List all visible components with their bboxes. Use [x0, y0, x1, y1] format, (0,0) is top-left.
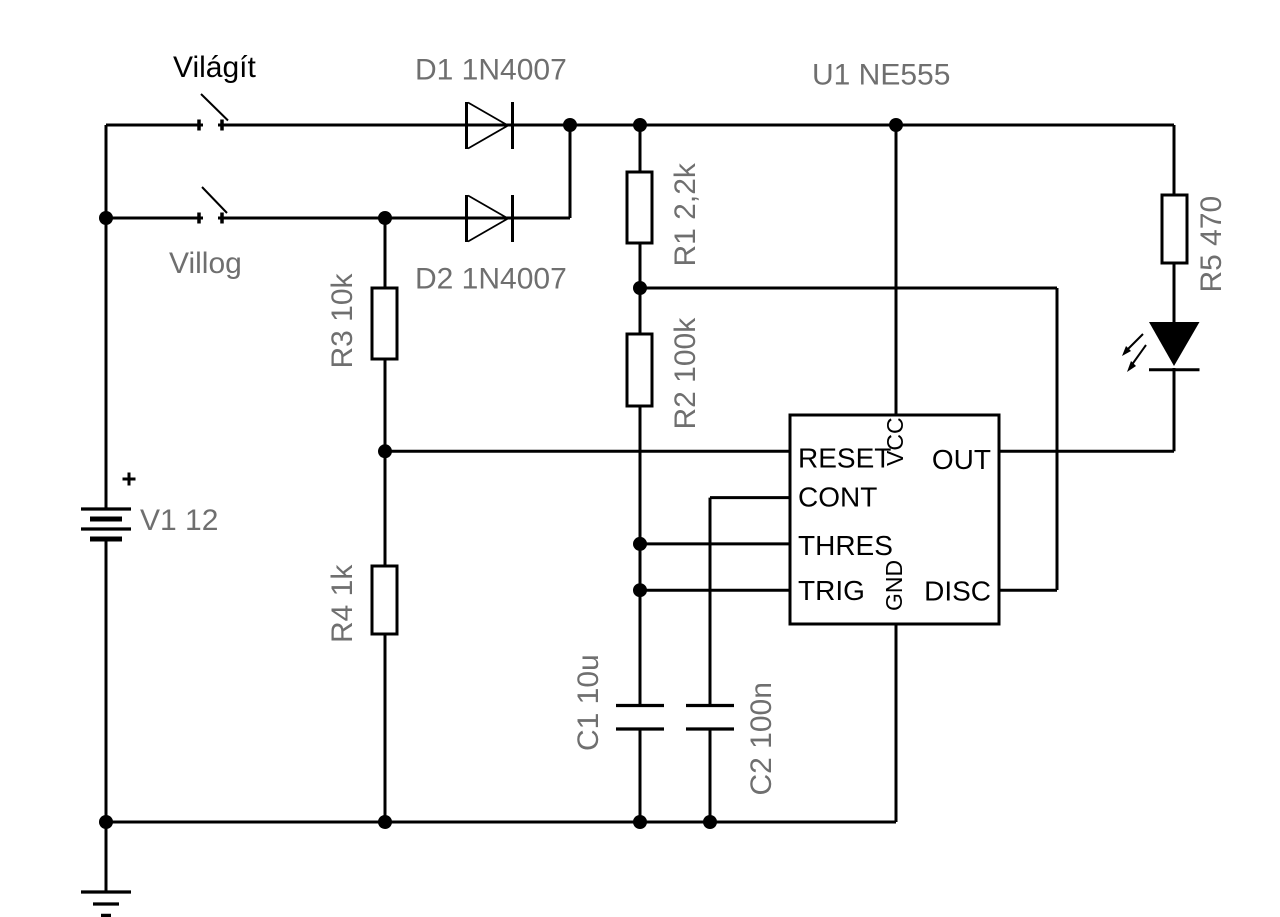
svg-text:R1 2,2k: R1 2,2k [669, 162, 702, 266]
op-amp U1 NE555 box [790, 415, 999, 624]
wire VCC riser [895, 125, 898, 416]
node C2 bottom [703, 815, 717, 829]
diode D1 [467, 102, 513, 149]
svg-text:GND: GND [881, 560, 907, 611]
resistor R2 [627, 334, 652, 406]
svg-text:D2 1N4007: D2 1N4007 [415, 263, 567, 296]
node R1 top [633, 118, 647, 132]
node R1R2 [633, 281, 647, 295]
wire DISC [999, 589, 1057, 592]
switch S2 Villog [199, 187, 227, 224]
node villog-left [99, 211, 113, 225]
svg-text:R4 1k: R4 1k [326, 564, 359, 643]
node R3 top [378, 211, 392, 225]
svg-text:TRIG: TRIG [798, 575, 865, 606]
wire R1 to R2 [639, 242, 642, 335]
wire DISC riser [1056, 288, 1059, 590]
wire R3 column top [384, 218, 387, 289]
wire R5 top [1173, 125, 1176, 196]
wire R5 to LED [1173, 262, 1176, 323]
node C1 bottom [633, 815, 647, 829]
resistor R5 [1162, 195, 1187, 263]
node junction dots [99, 118, 903, 829]
wire left rail lower [105, 539, 108, 822]
wire R1 top [639, 125, 642, 173]
wire villog row right [218, 217, 570, 220]
svg-text:C2 100n: C2 100n [745, 682, 778, 795]
wire D2 cathode riser [569, 125, 572, 218]
svg-text:Villog: Villog [169, 247, 242, 280]
svg-text:OUT: OUT [932, 444, 991, 475]
wire THRES [640, 542, 791, 545]
svg-text:C1 10u: C1 10u [572, 654, 605, 751]
wire R3 to R4 [384, 358, 387, 567]
wire ground stem [105, 822, 108, 892]
diode D2 [467, 195, 513, 242]
svg-text:R3 10k: R3 10k [326, 272, 359, 368]
svg-text:CONT: CONT [798, 482, 877, 513]
svg-text:Világít: Világít [173, 51, 257, 84]
svg-text:DISC: DISC [924, 576, 991, 607]
wire top rail right segment [218, 124, 1174, 127]
svg-text:VCC: VCC [882, 417, 908, 466]
node R4 bottom [378, 815, 392, 829]
svg-text:V1 12: V1 12 [140, 504, 218, 537]
node D2 riser top [563, 118, 577, 132]
wire RESET [385, 450, 791, 453]
capacitor C1 [616, 706, 664, 730]
resistor R1 [627, 172, 652, 243]
capacitor C2 [686, 706, 734, 730]
ground [81, 892, 131, 916]
resistor R3 [372, 288, 397, 359]
wire R4 bottom [384, 633, 387, 822]
node THRES [633, 537, 647, 551]
svg-text:D1 1N4007: D1 1N4007 [415, 54, 567, 87]
wire TRIG [640, 589, 791, 592]
svg-text:R5 470: R5 470 [1195, 196, 1228, 293]
LED D3 [1122, 322, 1200, 372]
node TRIG [633, 583, 647, 597]
wire OUT [999, 450, 1174, 453]
node VCC top [889, 118, 903, 132]
wire GND drop [895, 623, 898, 822]
wire LED to OUT [1173, 368, 1176, 451]
wire C1 bottom [639, 730, 642, 822]
wire top rail left segment [106, 124, 203, 127]
node bottom left [99, 815, 113, 829]
svg-text:THRES: THRES [798, 530, 893, 561]
battery V1 [81, 473, 136, 540]
wire node R1R2 to DISC column [640, 287, 1057, 290]
wire villog row left [106, 217, 203, 220]
svg-text:U1 NE555: U1 NE555 [812, 59, 950, 92]
resistor R4 [372, 566, 397, 634]
switch S1 Vilagit [199, 94, 228, 131]
wire R2 to C1 [639, 405, 642, 704]
wire bottom rail [106, 821, 896, 824]
node RESET [378, 444, 392, 458]
wire left rail upper [105, 125, 108, 509]
wire CONT [710, 496, 791, 499]
svg-text:RESET: RESET [798, 443, 891, 474]
wire CONT to C2 [709, 498, 712, 704]
svg-text:R2 100k: R2 100k [669, 317, 702, 430]
wire C2 bottom [709, 730, 712, 822]
